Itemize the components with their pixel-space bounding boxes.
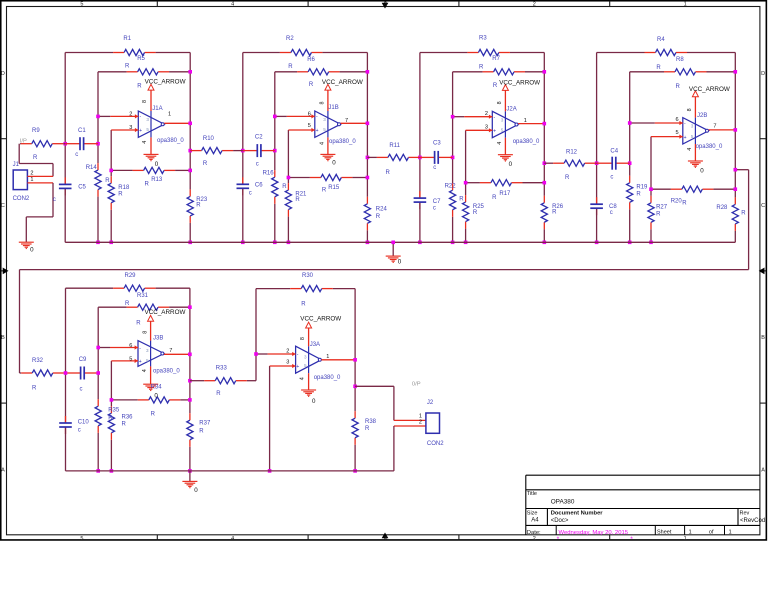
svg-text:R: R [203,161,208,167]
svg-text:8: 8 [319,102,325,105]
svg-text:<RevCod: <RevCod [740,518,765,524]
svg-text:R31: R31 [137,293,149,299]
svg-text:R12: R12 [566,149,578,155]
svg-text:R34: R34 [151,385,163,391]
svg-text:R: R [322,187,327,193]
svg-text:R: R [565,175,570,181]
svg-text:+: + [296,364,299,370]
svg-text:R: R [282,184,287,190]
svg-text:opa380_0: opa380_0 [696,144,723,150]
svg-text:R6: R6 [307,57,315,63]
svg-text:C4: C4 [610,149,618,155]
svg-text:4: 4 [319,142,325,145]
svg-text:4: 4 [231,1,234,7]
svg-text:1: 1 [684,1,687,7]
svg-text:R25: R25 [473,204,485,210]
svg-text:R15: R15 [328,185,340,191]
svg-text:0: 0 [312,398,316,405]
svg-text:R28: R28 [716,205,728,211]
svg-text:3: 3 [501,117,504,122]
svg-text:2: 2 [286,348,289,354]
svg-text:VCC_ARROW: VCC_ARROW [300,316,341,323]
svg-text:c: c [256,161,259,167]
svg-text:8: 8 [142,100,148,103]
svg-text:0: 0 [398,259,402,266]
svg-text:3: 3 [129,125,132,131]
svg-text:R: R [151,412,156,418]
svg-text:6: 6 [676,117,679,123]
svg-text:0: 0 [700,168,704,175]
svg-text:8: 8 [300,337,306,340]
svg-text:2: 2 [419,420,422,426]
svg-text:R: R [145,182,150,188]
svg-text:c: c [610,210,613,216]
svg-text:1: 1 [419,414,422,420]
svg-text:R: R [552,210,557,216]
svg-text:0: 0 [154,392,158,399]
svg-text:D: D [1,71,5,77]
svg-text:Size: Size [527,510,538,516]
svg-text:3: 3 [485,124,488,130]
svg-text:R5: R5 [137,56,145,62]
svg-text:C6: C6 [255,183,263,189]
svg-text:c: c [53,197,56,203]
svg-text:R33: R33 [216,366,228,372]
svg-text:R20: R20 [671,199,683,205]
svg-text:R: R [295,197,300,203]
svg-text:C3: C3 [433,140,441,146]
svg-text:c: c [80,387,83,393]
svg-text:R: R [676,84,681,90]
svg-text:R: R [365,426,370,432]
svg-text:R2: R2 [286,36,294,42]
svg-text:R27: R27 [656,204,668,210]
svg-text:4: 4 [142,369,148,372]
svg-text:1: 1 [30,177,33,183]
svg-text:VCC_ARROW: VCC_ARROW [145,79,186,86]
svg-text:C2: C2 [255,135,263,141]
svg-text:C1: C1 [78,128,86,134]
svg-text:1: 1 [524,118,527,124]
svg-text:2: 2 [485,111,488,117]
svg-text:Rev: Rev [740,510,750,516]
svg-text:5: 5 [691,134,694,139]
svg-text:R: R [137,83,142,89]
svg-text:I/P: I/P [20,138,27,144]
svg-text:J3B: J3B [153,336,163,342]
svg-text:opa380_0: opa380_0 [513,139,540,145]
svg-text:*: * [630,536,633,543]
svg-text:5: 5 [501,128,504,133]
svg-text:B: B [1,335,5,341]
svg-text:R35: R35 [108,408,120,414]
svg-text:c: c [78,428,81,434]
svg-text:3: 3 [146,117,149,122]
svg-text:opa380_0: opa380_0 [329,139,356,145]
svg-text:5: 5 [146,358,149,363]
svg-text:J2: J2 [427,400,434,406]
svg-text:R: R [33,155,38,161]
svg-text:C: C [761,203,765,209]
svg-text:R: R [682,201,687,207]
svg-text:R: R [118,191,123,197]
svg-text:C5: C5 [78,184,86,190]
svg-text:R: R [309,82,314,88]
svg-text:R32: R32 [32,358,44,364]
svg-text:VCC_ARROW: VCC_ARROW [145,309,186,316]
svg-text:opa380_0: opa380_0 [157,138,184,144]
svg-text:4: 4 [231,536,234,542]
svg-text:R14: R14 [86,165,98,171]
svg-text:R: R [199,429,204,435]
svg-text:R38: R38 [365,419,377,425]
svg-text:4: 4 [497,142,503,145]
svg-text:A: A [761,467,765,473]
svg-text:5: 5 [323,127,326,132]
svg-text:3: 3 [304,355,307,360]
svg-text:R29: R29 [125,273,137,279]
svg-text:J2B: J2B [697,113,707,119]
svg-text:R: R [741,211,746,217]
svg-text:2: 2 [533,1,536,7]
svg-text:R: R [122,422,127,428]
svg-text:3: 3 [286,360,289,366]
svg-text:R: R [656,211,661,217]
svg-text:+: + [684,135,687,141]
svg-text:2: 2 [30,170,33,176]
svg-text:R9: R9 [32,128,40,134]
svg-text:R: R [473,210,478,216]
svg-text:0: 0 [332,160,336,167]
svg-text:*: * [557,536,560,543]
svg-text:C10: C10 [78,419,90,425]
svg-text:<Doc>: <Doc> [551,518,569,524]
svg-text:c: c [433,206,436,212]
svg-text:R36: R36 [122,414,134,420]
svg-text:R: R [376,214,381,220]
svg-text:J3A: J3A [310,342,320,348]
svg-text:R22: R22 [445,184,457,190]
svg-text:R: R [636,192,641,198]
svg-text:3: 3 [323,117,326,122]
svg-text:R: R [301,301,306,307]
svg-text:c: c [75,152,78,158]
svg-text:8: 8 [142,331,148,334]
svg-text:0: 0 [194,487,198,494]
svg-text:5: 5 [308,123,311,129]
svg-text:J1A: J1A [152,106,162,112]
svg-text:4: 4 [142,141,148,144]
svg-text:5: 5 [304,363,307,368]
svg-text:R: R [196,203,201,209]
svg-text:c: c [249,191,252,197]
svg-text:J1: J1 [13,162,20,168]
svg-text:C9: C9 [79,357,87,363]
svg-text:c: c [610,175,613,181]
svg-text:+: + [139,359,142,365]
svg-text:Title: Title [527,491,537,497]
svg-text:CON2: CON2 [427,441,444,447]
svg-text:5: 5 [146,127,149,132]
svg-text:4: 4 [687,148,693,151]
svg-text:VCC_ARROW: VCC_ARROW [322,79,363,86]
svg-text:6: 6 [308,111,311,117]
svg-text:1: 1 [689,530,692,536]
svg-text:5: 5 [80,536,83,542]
svg-text:R: R [459,197,464,203]
svg-text:J2A: J2A [506,106,516,112]
svg-text:R11: R11 [389,143,400,149]
svg-text:R: R [479,65,484,71]
svg-text:7: 7 [345,118,348,124]
svg-text:R4: R4 [657,37,665,43]
svg-text:5: 5 [676,130,679,136]
svg-text:R: R [105,178,110,184]
svg-text:VCC_ARROW: VCC_ARROW [689,86,730,93]
svg-text:Date:: Date: [527,530,541,536]
svg-text:R37: R37 [199,421,211,427]
svg-text:8: 8 [497,101,503,104]
svg-text:R: R [125,63,130,69]
svg-text:8: 8 [687,108,693,111]
svg-text:3: 3 [146,348,149,353]
svg-text:7: 7 [169,348,172,354]
svg-text:5: 5 [129,357,132,363]
svg-text:+: + [139,128,142,134]
svg-text:R: R [32,386,37,392]
svg-text:of: of [709,530,714,536]
svg-text:R16: R16 [263,170,275,176]
svg-text:R: R [493,83,498,89]
svg-text:+: + [316,128,319,134]
svg-text:R: R [108,416,113,422]
svg-text:4: 4 [300,377,306,380]
svg-text:0: 0 [30,246,34,253]
svg-text:+: + [493,129,496,135]
svg-text:R17: R17 [499,191,511,197]
svg-text:Sheet: Sheet [657,530,672,536]
svg-text:D: D [761,71,765,77]
svg-text:R: R [136,320,141,326]
svg-text:opa380_0: opa380_0 [153,369,180,375]
svg-text:B: B [761,335,765,341]
svg-text:R: R [216,391,221,397]
svg-text:R: R [656,65,661,71]
svg-text:opa380_0: opa380_0 [314,375,341,381]
svg-text:A4: A4 [531,518,539,524]
svg-text:OPA380: OPA380 [551,499,575,506]
svg-text:1: 1 [168,112,171,118]
svg-text:R18: R18 [118,185,130,191]
svg-text:1: 1 [684,536,687,542]
svg-text:3: 3 [691,124,694,129]
svg-text:6: 6 [129,343,132,349]
svg-text:R: R [386,170,391,176]
svg-text:J1B: J1B [328,105,338,111]
svg-text:Document Number: Document Number [551,510,604,516]
svg-text:0/P: 0/P [412,382,421,388]
svg-text:R7: R7 [492,56,500,62]
svg-text:R3: R3 [479,35,487,41]
svg-text:3: 3 [384,536,387,542]
svg-text:7: 7 [713,123,716,129]
svg-text:R10: R10 [203,136,215,142]
svg-text:c: c [433,165,436,171]
svg-text:C7: C7 [433,199,441,205]
svg-text:C: C [1,203,5,209]
svg-text:R30: R30 [302,273,314,279]
svg-text:3: 3 [384,1,387,7]
svg-text:R1: R1 [123,36,131,42]
svg-text:VCC_ARROW: VCC_ARROW [499,79,540,86]
svg-text:R: R [492,195,497,201]
svg-text:R19: R19 [636,185,648,191]
svg-text:R: R [288,64,293,70]
svg-text:A: A [1,467,5,473]
svg-text:5: 5 [80,1,83,7]
svg-text:1: 1 [729,530,732,536]
svg-text:2: 2 [533,536,536,542]
svg-text:CON2: CON2 [13,196,30,202]
svg-text:2: 2 [129,112,132,118]
svg-text:R13: R13 [151,177,163,183]
svg-text:0: 0 [509,161,513,168]
svg-text:1: 1 [326,354,329,360]
svg-text:0: 0 [155,161,159,168]
svg-text:R8: R8 [676,57,684,63]
svg-text:R24: R24 [376,207,388,213]
svg-text:R: R [125,301,130,307]
svg-text:Wednesday, May 20, 2015: Wednesday, May 20, 2015 [559,530,629,536]
